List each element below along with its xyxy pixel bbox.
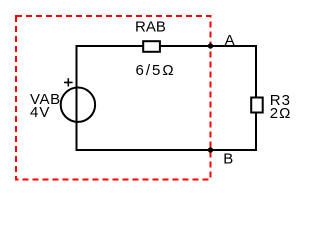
plus sign (source polarity)	[64, 78, 73, 86]
svg-text:B: B	[223, 151, 233, 168]
node B (junction dot)	[208, 147, 213, 152]
svg-text:RAB: RAB	[135, 18, 166, 35]
resistor RAB	[143, 41, 160, 52]
svg-text:6/5Ω: 6/5Ω	[136, 62, 176, 79]
resistor R3	[251, 98, 263, 113]
wire bottom	[77, 149, 257, 151]
svg-text:2Ω: 2Ω	[270, 105, 292, 122]
boundary box (red dashed region)	[16, 16, 211, 180]
voltage source VAB (circle)	[61, 88, 95, 122]
wire top (from source top to node A and on to R3 branch)	[77, 45, 257, 47]
wire right (R3 branch)	[255, 45, 257, 151]
svg-text:4V: 4V	[30, 104, 50, 121]
wire left (through source VAB)	[76, 45, 78, 151]
node A (junction dot)	[208, 43, 213, 48]
svg-text:A: A	[225, 32, 235, 49]
